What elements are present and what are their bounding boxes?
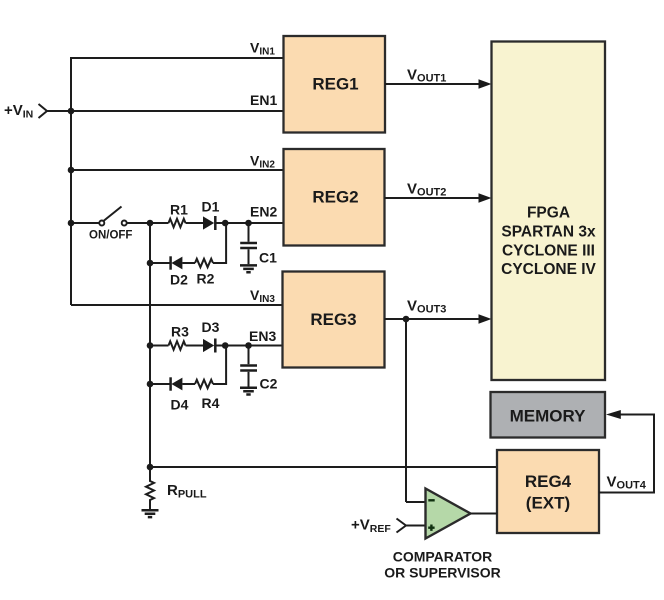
wire EN3 [215, 345, 284, 347]
svg-text:D1: D1 [202, 199, 220, 215]
wire left bus vertical [70, 57, 72, 305]
wire bus2 to D4 [150, 383, 170, 385]
junction switch line [68, 220, 75, 227]
label VOUT2 [407, 181, 446, 199]
wire bus to switch [70, 222, 99, 224]
svg-text:REG4: REG4 [525, 472, 572, 491]
svg-text:D4: D4 [171, 397, 189, 413]
wire VIN1 [70, 57, 284, 59]
junction D1-R2 node [222, 220, 229, 227]
ground under C1 [240, 265, 257, 272]
wire +VREF to comparator [405, 525, 426, 527]
label D2 [170, 272, 188, 288]
label R4 [202, 395, 220, 411]
ground under RPULL [142, 510, 159, 517]
svg-text:C2: C2 [260, 376, 278, 392]
svg-text:REG1: REG1 [312, 75, 358, 94]
svg-text:EN2: EN2 [250, 204, 277, 220]
FPGA block U1 [492, 42, 606, 381]
svg-text:VIN2: VIN2 [250, 153, 275, 171]
diode D2 [171, 256, 183, 269]
resistor R1 [169, 219, 186, 227]
svg-text:RPULL: RPULL [167, 482, 207, 501]
junction VOUT3 node [403, 316, 410, 323]
svg-text:VOUT2: VOUT2 [407, 181, 446, 199]
label VIN3 [250, 287, 275, 305]
wire D4 to R4 [182, 383, 195, 385]
label VIN2 [250, 153, 275, 171]
svg-text:VIN1: VIN1 [250, 40, 275, 58]
wire VOUT3 down to comparator [406, 319, 426, 502]
svg-text:FPGA: FPGA [527, 205, 570, 222]
wire EN2 [215, 222, 285, 224]
svg-text:+VIN: +VIN [4, 102, 33, 121]
svg-text:REG2: REG2 [312, 188, 358, 207]
ground under C2 [240, 388, 257, 395]
wire bus2 to R3 [150, 345, 169, 347]
label R3 [171, 324, 189, 340]
label VIN1 [250, 40, 275, 58]
junction C2 node [245, 342, 252, 349]
junction VIN2 [68, 167, 75, 174]
label RPULL [167, 482, 207, 501]
wire VIN3 [71, 304, 284, 306]
resistor RPULL [146, 467, 154, 509]
svg-text:R4: R4 [202, 395, 220, 411]
svg-text:CYCLONE III: CYCLONE III [502, 242, 595, 259]
label C2 [260, 376, 278, 392]
label VOUT3 [407, 298, 446, 316]
junction D4 branch [147, 381, 154, 388]
svg-text:REG3: REG3 [310, 310, 356, 329]
svg-text:EN1: EN1 [250, 92, 277, 108]
wire R4 up to EN3 node [213, 346, 226, 386]
node +VREF input chevron [397, 519, 407, 533]
svg-text:D3: D3 [202, 319, 220, 335]
wire RPULL node to REG4 [150, 466, 497, 468]
svg-text:VOUT4: VOUT4 [607, 474, 647, 492]
switch ON/OFF [99, 207, 126, 226]
resistor R4 [195, 380, 213, 388]
label COMPARATOR OR SUPERVISOR [384, 549, 500, 581]
wire R2 up to EN2 node [213, 223, 226, 264]
svg-text:MEMORY: MEMORY [510, 407, 587, 426]
label VOUT1 [407, 67, 446, 85]
wire R1 to D1 [186, 222, 204, 224]
label R1 [170, 202, 188, 218]
label D3 [202, 319, 220, 335]
diode D4 [171, 377, 183, 390]
wire VOUT3 with arrow [385, 314, 492, 324]
svg-text:ON/OFF: ON/OFF [89, 230, 132, 242]
svg-text:C1: C1 [259, 250, 277, 266]
label +VIN [4, 102, 33, 121]
label VOUT4 [607, 474, 647, 492]
regulator REG2 [284, 149, 385, 246]
wire comparator output to REG4 [471, 513, 498, 515]
svg-text:R1: R1 [170, 202, 188, 218]
capacitor C2 [240, 346, 257, 387]
svg-text:R3: R3 [171, 324, 189, 340]
diode D3 [203, 339, 215, 353]
regulator REG3 [283, 272, 385, 368]
regulator REG1 [284, 36, 386, 133]
svg-text:(EXT): (EXT) [526, 494, 570, 513]
svg-text:SPARTAN 3x: SPARTAN 3x [501, 224, 596, 241]
svg-text:OR SUPERVISOR: OR SUPERVISOR [384, 565, 500, 581]
label D4 [171, 397, 189, 413]
svg-text:CYCLONE IV: CYCLONE IV [501, 261, 596, 278]
wire VIN2 [70, 169, 284, 171]
wire R3 to D3 [186, 345, 204, 347]
wire EN1 from +VIN to REG1 [46, 110, 284, 112]
junction D2 branch [147, 260, 154, 267]
junction D3-R4 node [222, 342, 229, 349]
svg-text:EN3: EN3 [249, 328, 276, 344]
MEMORY block [491, 392, 606, 438]
resistor R3 [169, 341, 186, 349]
label C1 [259, 250, 277, 266]
wire VOUT4 to MEMORY with arrow [599, 410, 654, 493]
label EN1 [250, 92, 277, 108]
resistor R2 [195, 259, 213, 267]
junction R3 branch [147, 342, 154, 349]
svg-text:VIN3: VIN3 [250, 287, 275, 305]
label EN2 [250, 204, 277, 220]
label D1 [202, 199, 220, 215]
junction +VIN/EN1 [68, 108, 75, 115]
junction RPULL node [147, 464, 154, 471]
junction bus2 top [147, 220, 154, 227]
label ON/OFF [89, 230, 132, 242]
label EN3 [249, 328, 276, 344]
label +VREF [351, 517, 391, 536]
svg-text:R2: R2 [197, 271, 215, 287]
wire D2 to R2 [182, 262, 195, 264]
svg-text:VOUT3: VOUT3 [407, 298, 446, 316]
wire VOUT2 with arrow [385, 193, 492, 203]
svg-text:VOUT1: VOUT1 [407, 67, 446, 85]
regulator REG4 (EXT) [497, 450, 599, 533]
junction C1 node [245, 220, 252, 227]
svg-text:+VREF: +VREF [351, 517, 391, 536]
label R2 [197, 271, 215, 287]
wire bus2 to D2 [150, 262, 170, 264]
diode D1 [203, 216, 215, 230]
wire VOUT1 with arrow [385, 79, 492, 89]
svg-text:D2: D2 [170, 272, 188, 288]
node +VIN input chevron [39, 104, 48, 118]
wire bus2 vertical [149, 223, 151, 467]
capacitor C1 [240, 223, 257, 264]
comparator U2 [426, 489, 471, 539]
svg-text:COMPARATOR: COMPARATOR [393, 549, 493, 565]
wire switch to R1 [127, 222, 169, 224]
